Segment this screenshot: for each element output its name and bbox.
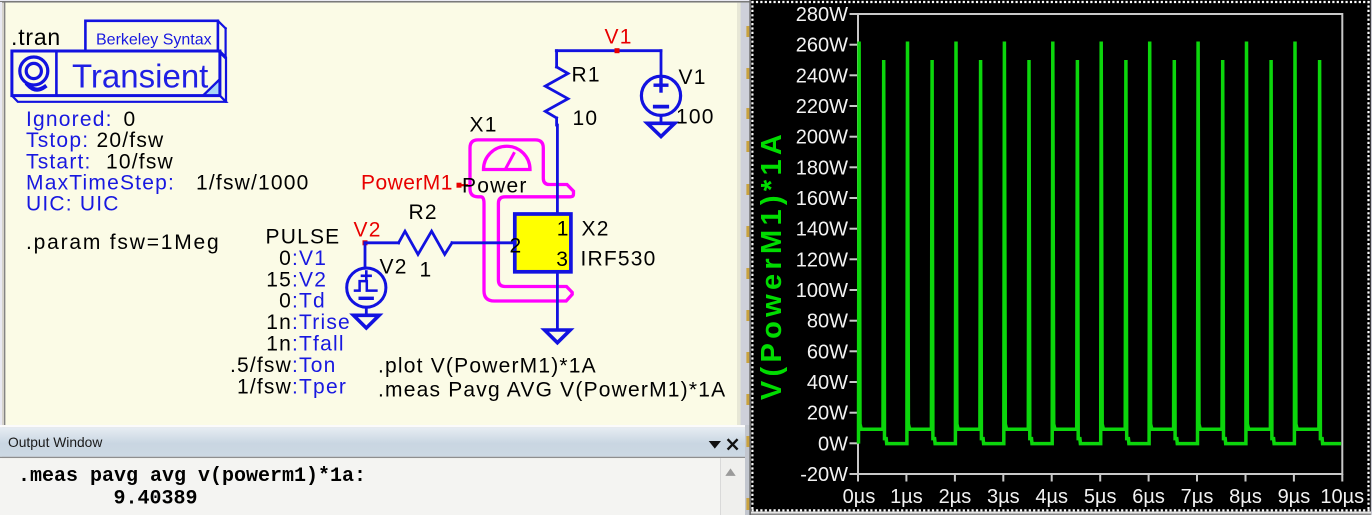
svg-text:220W: 220W xyxy=(796,96,848,118)
waveform trace V(PowerM1)*1A xyxy=(859,42,1342,444)
output window content area xyxy=(0,458,745,515)
svg-text:4µs: 4µs xyxy=(1035,486,1068,508)
resistor R2 xyxy=(399,231,452,254)
svg-text:.meas pavg avg v(powerm1)*1a:: .meas pavg avg v(powerm1)*1a: xyxy=(18,465,366,488)
marching-ants selection border xyxy=(752,1,1371,511)
output window separator xyxy=(0,425,745,427)
svg-text:5µs: 5µs xyxy=(1084,486,1117,508)
svg-text:V1: V1 xyxy=(605,26,633,49)
svg-text:180W: 180W xyxy=(796,157,848,179)
ground (X2 source) xyxy=(545,330,571,343)
svg-text:V(PowerM1)*1A: V(PowerM1)*1A xyxy=(756,130,788,400)
svg-text:MaxTimeStep:: MaxTimeStep: xyxy=(26,172,175,195)
svg-text:Transient: Transient xyxy=(72,58,208,95)
svg-text:Ignored:: Ignored: xyxy=(26,108,113,131)
svg-text:1: 1 xyxy=(420,259,433,282)
plot background xyxy=(751,0,1372,515)
node PowerM1 leader line xyxy=(459,184,467,186)
plot frame xyxy=(858,14,1342,474)
svg-text:3µs: 3µs xyxy=(987,486,1020,508)
wire drain (R1 to X2 pin1) xyxy=(556,125,559,213)
svg-text:.param fsw=1Meg: .param fsw=1Meg xyxy=(26,231,221,254)
svg-text:100: 100 xyxy=(676,106,715,129)
X1 meter face xyxy=(483,146,530,169)
voltage source V1 xyxy=(641,51,680,124)
svg-text:140W: 140W xyxy=(796,219,848,241)
MOSFET X2 body xyxy=(515,214,571,272)
svg-text:0µs: 0µs xyxy=(843,486,876,508)
svg-text:3: 3 xyxy=(556,248,569,271)
svg-text:X2: X2 xyxy=(582,217,610,240)
x axis ticks xyxy=(858,474,1342,482)
ground (V1) xyxy=(647,123,674,136)
wire gate right xyxy=(452,241,513,244)
X1 meter needle xyxy=(506,154,514,168)
svg-text:.tran: .tran xyxy=(11,24,61,50)
x axis labels xyxy=(843,486,1365,508)
svg-text:V2: V2 xyxy=(354,218,382,241)
svg-text:UIC: UIC: UIC: UIC xyxy=(26,193,120,216)
svg-text:10: 10 xyxy=(573,107,599,130)
svg-text::Tper: :Tper xyxy=(292,375,347,398)
simulation parameter text xyxy=(26,108,310,254)
svg-text:40W: 40W xyxy=(807,372,848,394)
svg-text:PULSE: PULSE xyxy=(266,226,341,249)
svg-text:1n: 1n xyxy=(266,311,292,334)
svg-text:15: 15 xyxy=(266,268,292,291)
svg-text::V2: :V2 xyxy=(292,268,327,291)
output window title bar xyxy=(0,427,745,457)
svg-text:0W: 0W xyxy=(818,433,848,455)
Q logo xyxy=(20,57,48,90)
svg-text:20W: 20W xyxy=(807,403,848,425)
svg-text::Trise: :Trise xyxy=(292,311,351,334)
svg-text:7µs: 7µs xyxy=(1181,486,1214,508)
PULSE parameter list xyxy=(230,226,351,399)
svg-text:Power: Power xyxy=(462,175,528,198)
svg-text:9µs: 9µs xyxy=(1278,486,1311,508)
svg-text:Tstart:: Tstart: xyxy=(26,151,92,174)
svg-text:8µs: 8µs xyxy=(1229,486,1262,508)
svg-text:.plot V(PowerM1)*1A: .plot V(PowerM1)*1A xyxy=(378,354,597,377)
title bar collapse arrow xyxy=(709,441,721,449)
svg-text:60W: 60W xyxy=(807,341,848,363)
svg-text:X1: X1 xyxy=(470,114,498,137)
svg-text:6µs: 6µs xyxy=(1132,486,1165,508)
wire source (X2 pin3 to ground) xyxy=(556,272,559,330)
svg-text:PowerM1: PowerM1 xyxy=(361,172,453,195)
svg-text:1/fsw: 1/fsw xyxy=(237,375,292,398)
svg-text:.5/fsw: .5/fsw xyxy=(230,354,292,377)
voltage source V2 (pulse) xyxy=(347,243,386,315)
svg-text::Ton: :Ton xyxy=(292,354,337,377)
node V2 dot xyxy=(363,240,368,245)
svg-text:240W: 240W xyxy=(796,65,848,87)
svg-text:120W: 120W xyxy=(796,249,848,271)
svg-text:Output Window: Output Window xyxy=(8,435,102,450)
svg-text:2: 2 xyxy=(510,235,523,258)
svg-text::Tfall: :Tfall xyxy=(292,333,345,356)
svg-text:200W: 200W xyxy=(796,127,848,149)
svg-text:V2: V2 xyxy=(380,256,408,279)
svg-text:10/fsw: 10/fsw xyxy=(106,151,174,174)
Transient block fold corner xyxy=(204,80,219,95)
svg-text:160W: 160W xyxy=(796,188,848,210)
svg-text:9.40389: 9.40389 xyxy=(114,488,198,511)
node PowerM1 dot xyxy=(457,183,462,188)
svg-text:100W: 100W xyxy=(796,280,848,302)
schematic pane background xyxy=(5,3,737,425)
svg-text::Td: :Td xyxy=(292,290,326,313)
svg-text:80W: 80W xyxy=(807,311,848,333)
svg-text:-20W: -20W xyxy=(800,464,848,486)
resistor R1 xyxy=(545,51,568,125)
splitter strip between panes xyxy=(737,3,751,425)
y axis ticks xyxy=(850,14,858,474)
svg-text:1/fsw/1000: 1/fsw/1000 xyxy=(196,172,310,195)
svg-text::V1: :V1 xyxy=(292,247,327,270)
y axis labels xyxy=(796,4,848,486)
svg-text:280W: 280W xyxy=(796,4,848,26)
ground (V2) xyxy=(354,315,380,328)
svg-text:.meas Pavg AVG V(PowerM1)*1A: .meas Pavg AVG V(PowerM1)*1A xyxy=(378,378,726,401)
svg-text:1n: 1n xyxy=(266,333,292,356)
wire top rail V1 xyxy=(556,49,661,52)
svg-text:Berkeley Syntax: Berkeley Syntax xyxy=(96,32,212,49)
svg-text:V1: V1 xyxy=(679,66,707,89)
svg-text:Tstop:: Tstop: xyxy=(26,129,89,152)
wire gate left xyxy=(365,241,399,244)
svg-text:0: 0 xyxy=(279,247,292,270)
svg-text:R2: R2 xyxy=(409,201,438,224)
title bar close button xyxy=(728,439,738,449)
svg-text:0: 0 xyxy=(279,290,292,313)
pane separator line xyxy=(749,0,751,515)
Transient block main box xyxy=(12,51,220,96)
Berkeley Syntax box xyxy=(85,21,225,59)
Transient block 3D extrusion xyxy=(12,51,226,102)
scrollbar up arrow xyxy=(725,468,735,476)
svg-text:1µs: 1µs xyxy=(890,486,923,508)
svg-text:R1: R1 xyxy=(572,64,601,87)
node V1 dot xyxy=(615,48,620,53)
svg-text:2µs: 2µs xyxy=(939,486,972,508)
svg-text:IRF530: IRF530 xyxy=(581,247,657,270)
svg-text:20/fsw: 20/fsw xyxy=(97,129,165,152)
svg-text:0: 0 xyxy=(124,108,137,131)
power meter X1 outline xyxy=(470,140,574,301)
svg-text:1: 1 xyxy=(557,217,570,240)
svg-text:260W: 260W xyxy=(796,35,848,57)
svg-text:10µs: 10µs xyxy=(1320,486,1364,508)
